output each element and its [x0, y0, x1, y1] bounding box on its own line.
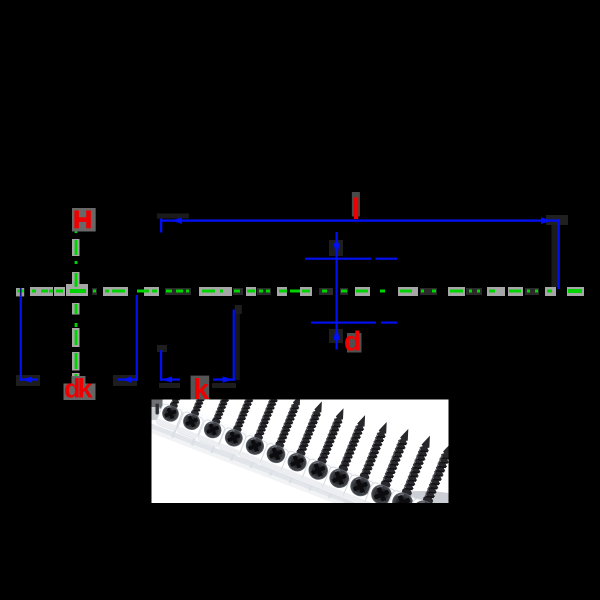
- dimension l: overall length: [157, 214, 568, 290]
- strip shadow bottom right: [372, 491, 472, 517]
- svg-text:dk: dk: [64, 374, 93, 404]
- horizontal centerline (screw axis): [30, 284, 584, 296]
- label dk: [64, 374, 96, 404]
- label l: [352, 192, 360, 219]
- screws: [152, 356, 464, 533]
- svg-text:d: d: [344, 326, 361, 357]
- label d: [344, 326, 362, 357]
- dimension dk: head diameter bracket: [16, 288, 138, 386]
- label H: [72, 208, 96, 232]
- dimension d: thread diameter: [305, 232, 397, 350]
- label k: [191, 374, 210, 406]
- photo: collated screw strip: [139, 356, 472, 540]
- dimension k: head height bracket: [157, 305, 242, 388]
- vertical centerline through screw head: [72, 230, 80, 382]
- collation band: [139, 395, 443, 540]
